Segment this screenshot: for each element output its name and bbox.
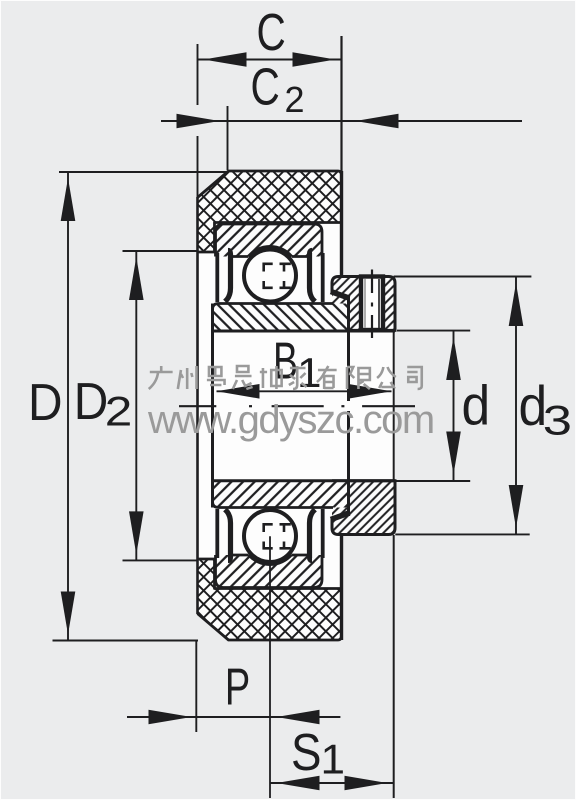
bore line top — [213, 330, 396, 333]
dimension D2 — [123, 251, 199, 560]
晟 — [233, 366, 253, 389]
广 — [149, 366, 173, 389]
seal upper left — [225, 251, 231, 302]
inner ring upper band — [213, 304, 349, 332]
seal upper right — [310, 251, 316, 302]
white body region of collar column — [342, 277, 396, 535]
svg-text:d: d — [462, 374, 491, 436]
dimension S1 — [270, 331, 394, 799]
ball centre plane line — [269, 536, 271, 798]
watermark chinese company name — [149, 366, 422, 389]
ball lower — [244, 510, 296, 562]
svg-text:1: 1 — [297, 350, 322, 397]
svg-text:C: C — [257, 3, 286, 61]
公 — [377, 367, 396, 388]
collar lower — [332, 481, 395, 535]
outer ring upper band — [216, 224, 323, 257]
限 — [347, 367, 370, 389]
collar upper — [332, 277, 395, 331]
dimension D — [53, 172, 229, 641]
dimension P — [127, 641, 340, 732]
dimension d3 — [394, 277, 532, 535]
inner ring right face — [347, 296, 350, 401]
housing right face lower — [340, 535, 343, 641]
svg-text:1: 1 — [321, 736, 346, 783]
司 — [407, 367, 422, 389]
inner ring left face — [211, 304, 214, 508]
ball upper — [244, 250, 296, 302]
set screw U1 — [361, 270, 383, 339]
white body region of housing column — [198, 171, 342, 640]
housing lower band crosshatch — [198, 559, 342, 640]
svg-text:2: 2 — [285, 79, 305, 120]
svg-text:3: 3 — [543, 397, 572, 444]
seal lower left — [225, 510, 231, 561]
svg-text:D: D — [28, 373, 63, 431]
housing upper band crosshatch — [198, 171, 342, 252]
inner ring lower band — [213, 480, 349, 508]
svg-text:S: S — [291, 724, 322, 781]
svg-text:D: D — [74, 372, 109, 430]
outer ring shoulder walls upper — [215, 253, 219, 302]
main horizontal centerline — [179, 405, 415, 407]
svg-text:www.gdyszc.com: www.gdyszc.com — [147, 398, 434, 442]
svg-text:P: P — [225, 658, 250, 716]
housing right face upper — [340, 171, 343, 277]
housing left face — [196, 197, 199, 614]
dimension C2 — [161, 106, 522, 170]
flinger upper right — [331, 292, 350, 299]
轴 — [260, 366, 282, 389]
seal lower right — [310, 510, 316, 561]
州 — [178, 366, 197, 389]
粤 — [207, 367, 225, 385]
承 — [289, 366, 307, 389]
outer ring lower band — [216, 555, 323, 588]
svg-text:C: C — [251, 58, 280, 116]
outer ring shoulder walls lower — [215, 509, 219, 558]
flinger lower right — [331, 513, 350, 520]
有 — [317, 366, 337, 389]
svg-text:2: 2 — [105, 387, 133, 435]
dimension B1 — [217, 384, 392, 399]
dimension d — [395, 331, 470, 481]
dimension C — [198, 36, 342, 277]
bore line bottom — [213, 479, 396, 482]
